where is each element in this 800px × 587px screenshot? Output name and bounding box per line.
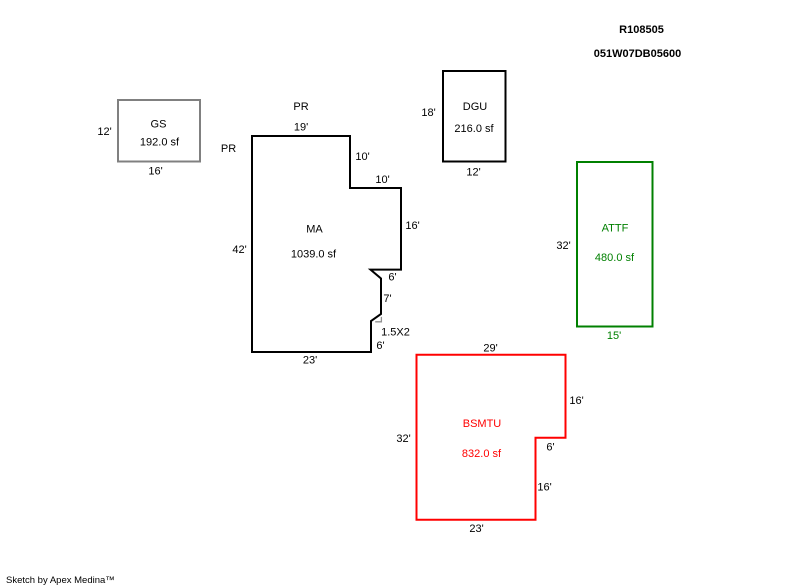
- svg-text:ATTF: ATTF: [602, 223, 629, 235]
- svg-text:19': 19': [294, 122, 308, 134]
- svg-text:6': 6': [376, 340, 384, 352]
- svg-text:6': 6': [546, 442, 554, 454]
- svg-text:051W07DB05600: 051W07DB05600: [594, 48, 681, 60]
- svg-text:DGU: DGU: [463, 101, 488, 113]
- svg-text:16': 16': [405, 220, 419, 232]
- svg-text:42': 42': [232, 244, 246, 256]
- svg-text:1.5X2: 1.5X2: [381, 327, 410, 339]
- svg-text:23': 23': [303, 355, 317, 367]
- svg-text:23': 23': [469, 523, 483, 535]
- svg-text:216.0 sf: 216.0 sf: [454, 123, 494, 135]
- svg-text:16': 16': [148, 166, 162, 178]
- svg-text:32': 32': [556, 240, 570, 252]
- svg-text:32': 32': [396, 433, 410, 445]
- svg-text:PR: PR: [293, 101, 308, 113]
- svg-text:Sketch by Apex Medina™: Sketch by Apex Medina™: [6, 575, 115, 586]
- svg-text:GS: GS: [151, 119, 167, 131]
- svg-text:18': 18': [421, 107, 435, 119]
- svg-text:832.0 sf: 832.0 sf: [462, 448, 502, 460]
- svg-text:BSMTU: BSMTU: [463, 418, 502, 430]
- svg-text:480.0 sf: 480.0 sf: [595, 252, 635, 264]
- svg-text:16': 16': [537, 482, 551, 494]
- svg-text:6': 6': [388, 271, 396, 283]
- svg-text:PR: PR: [221, 143, 236, 155]
- svg-text:16': 16': [569, 395, 583, 407]
- svg-text:MA: MA: [306, 224, 323, 236]
- svg-text:192.0 sf: 192.0 sf: [140, 137, 180, 149]
- svg-text:10': 10': [375, 174, 389, 186]
- svg-text:12': 12': [97, 126, 111, 138]
- svg-text:R108505: R108505: [619, 24, 664, 36]
- svg-text:1039.0 sf: 1039.0 sf: [291, 249, 337, 261]
- svg-text:29': 29': [483, 343, 497, 355]
- svg-text:7': 7': [383, 293, 391, 305]
- svg-text:15': 15': [607, 330, 621, 342]
- svg-text:10': 10': [355, 151, 369, 163]
- svg-text:12': 12': [466, 167, 480, 179]
